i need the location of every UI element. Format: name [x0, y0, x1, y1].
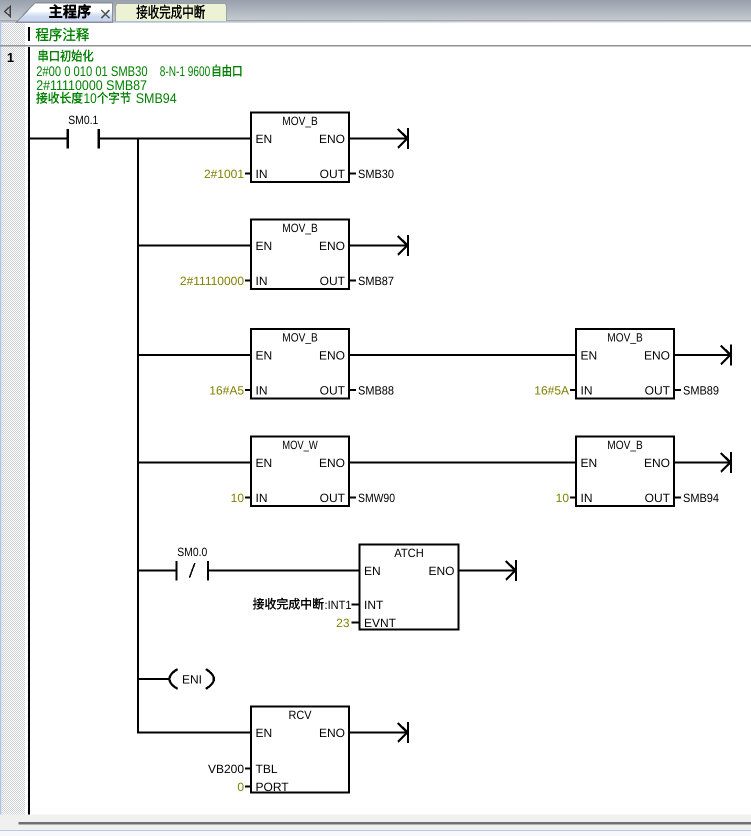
rung 4 middle wire	[349, 462, 576, 464]
svg-text:10: 10	[231, 491, 245, 505]
svg-text:SMB30: SMB30	[358, 167, 394, 181]
svg-text:SM0.0: SM0.0	[177, 545, 207, 559]
left blue edge	[0, 23, 2, 831]
svg-text:EN: EN	[256, 726, 273, 740]
svg-text:ENO: ENO	[319, 456, 345, 470]
svg-text:ENO: ENO	[319, 349, 345, 363]
rung 1 wire segments	[29, 138, 68, 140]
svg-text:10: 10	[556, 491, 570, 505]
rung 5 arrow	[515, 560, 517, 581]
svg-text:INT: INT	[364, 598, 384, 612]
svg-text:OUT: OUT	[645, 491, 671, 505]
MOV_B box 3b	[576, 329, 674, 399]
tab scroll-left arrow	[5, 6, 11, 16]
svg-text:1: 1	[7, 50, 14, 65]
svg-text:ENO: ENO	[428, 564, 454, 578]
rung 3 wire	[138, 354, 251, 356]
svg-text:EN: EN	[256, 349, 273, 363]
separator line	[0, 45, 751, 47]
contact SM0.0 negated	[175, 561, 177, 581]
svg-text:EN: EN	[256, 132, 273, 146]
svg-text:EVNT: EVNT	[364, 616, 397, 630]
rung 5 ENO wire	[459, 570, 516, 572]
rung 7 ENO wire	[349, 732, 407, 734]
inactive tab label	[137, 5, 205, 19]
rung 4 ENO wire	[674, 462, 730, 464]
rung 2 arrow	[407, 235, 409, 256]
svg-text:SMB88: SMB88	[358, 384, 394, 398]
svg-text:23: 23	[336, 616, 350, 630]
program comment header 程序注释	[36, 28, 89, 42]
svg-text:EN: EN	[256, 239, 273, 253]
svg-text:IN: IN	[256, 491, 268, 505]
rung 7 wire	[138, 732, 251, 734]
svg-text:EN: EN	[256, 456, 273, 470]
svg-text:SMB89: SMB89	[683, 384, 719, 398]
svg-text:OUT: OUT	[645, 384, 671, 398]
box4b IN pin	[570, 497, 576, 499]
svg-text:MOV_W: MOV_W	[282, 438, 318, 452]
svg-text:IN: IN	[256, 274, 268, 288]
inactive tab 接收完成中断	[116, 3, 227, 21]
svg-text:MOV_B: MOV_B	[282, 221, 318, 235]
rung 3 middle wire	[349, 354, 576, 356]
svg-text:ENO: ENO	[319, 726, 345, 740]
box3a OUT pin	[349, 389, 356, 391]
MOV_B box 1	[251, 113, 349, 183]
tab bar background	[0, 0, 751, 21]
svg-text:8-N-1 9600: 8-N-1 9600	[160, 63, 211, 79]
svg-text:MOV_B: MOV_B	[607, 438, 643, 452]
bottom blue line	[0, 830, 751, 832]
rung 2 wire	[138, 245, 251, 247]
box4b OUT pin	[674, 497, 681, 499]
rung 3 ENO wire	[674, 354, 730, 356]
box3b OUT pin	[674, 389, 681, 391]
svg-text:SMB94: SMB94	[683, 491, 719, 505]
ATCH EVNT pin	[352, 622, 360, 624]
ATCH INT label CJK	[253, 598, 324, 610]
RCV PORT pin	[245, 786, 251, 788]
svg-text:PORT: PORT	[256, 780, 290, 794]
svg-text:ENO: ENO	[319, 239, 345, 253]
svg-text:VB200: VB200	[208, 762, 244, 776]
svg-text:SMW90: SMW90	[358, 491, 395, 505]
rung 5 wire to contact	[138, 570, 177, 572]
svg-text:OUT: OUT	[320, 167, 346, 181]
RCV TBL pin	[245, 768, 251, 770]
rung 4 arrow	[730, 452, 732, 473]
branch vertical wire	[137, 138, 139, 734]
MOV_W box 4a	[251, 437, 349, 507]
svg-text:ENO: ENO	[319, 132, 345, 146]
svg-text:EN: EN	[581, 456, 598, 470]
box3a IN pin	[245, 389, 251, 391]
MOV_B box 2	[251, 220, 349, 290]
comment 自由口	[213, 65, 241, 77]
svg-text:IN: IN	[256, 167, 268, 181]
ATCH box U5	[360, 545, 459, 630]
svg-text:16#5A: 16#5A	[534, 384, 569, 398]
active tab 主程序	[16, 3, 112, 23]
rung 7 arrow	[407, 722, 409, 743]
svg-text:IN: IN	[581, 491, 593, 505]
comment marker bar	[28, 27, 30, 41]
svg-text:TBL: TBL	[256, 762, 278, 776]
svg-text:SMB87: SMB87	[358, 274, 394, 288]
splitter dark line	[19, 822, 751, 825]
left power rail	[28, 47, 30, 815]
svg-text:16#A5: 16#A5	[209, 384, 244, 398]
box4a OUT pin	[349, 497, 356, 499]
box2 OUT pin	[349, 280, 356, 282]
tab close x	[101, 10, 109, 18]
svg-text:ATCH: ATCH	[394, 546, 424, 560]
RCV box	[251, 707, 349, 793]
MOV_B box 3a	[251, 329, 349, 399]
svg-text:OUT: OUT	[320, 491, 346, 505]
svg-text:EN: EN	[364, 564, 381, 578]
svg-text:ENO: ENO	[644, 349, 670, 363]
svg-text:EN: EN	[581, 349, 598, 363]
svg-text:MOV_B: MOV_B	[282, 331, 318, 345]
box3b IN pin	[570, 389, 576, 391]
rung 3 arrow	[730, 344, 732, 365]
svg-text:RCV: RCV	[289, 708, 312, 722]
MOV_B box 4b	[576, 437, 674, 507]
svg-text:MOV_B: MOV_B	[282, 114, 318, 128]
comment 接收长度	[36, 92, 82, 104]
contact SM0.1	[66, 129, 68, 149]
rung 1 ENO wire	[349, 138, 407, 140]
box1 OUT pin	[349, 173, 356, 175]
rung 1 continuation arrow	[407, 128, 409, 149]
svg-text:10: 10	[84, 90, 97, 106]
rung 6 wire	[138, 678, 171, 680]
svg-text:SM0.1: SM0.1	[68, 113, 98, 127]
svg-text:OUT: OUT	[320, 384, 346, 398]
active tab label	[49, 4, 90, 18]
svg-text:SMB94: SMB94	[136, 90, 177, 106]
box1 IN pin	[245, 173, 251, 175]
svg-text:0: 0	[237, 780, 244, 794]
rung 4 wire	[138, 462, 251, 464]
svg-text::INT1: :INT1	[325, 598, 352, 612]
svg-text:MOV_B: MOV_B	[607, 331, 643, 345]
svg-text:ENI: ENI	[182, 672, 202, 686]
coil ENI	[169, 669, 177, 689]
box2 IN pin	[245, 280, 251, 282]
rung 2 ENO wire	[349, 245, 407, 247]
svg-text:2#11110000: 2#11110000	[180, 274, 244, 288]
bottom splitter area	[0, 815, 751, 831]
comment 串口初始化	[39, 50, 94, 62]
svg-text:ENO: ENO	[644, 456, 670, 470]
comment 个字节	[97, 92, 130, 104]
ATCH INT pin	[352, 604, 360, 606]
box4a IN pin	[245, 497, 251, 499]
svg-text:IN: IN	[256, 384, 268, 398]
svg-text:IN: IN	[581, 384, 593, 398]
svg-text:2#1001: 2#1001	[204, 167, 244, 181]
svg-text:OUT: OUT	[320, 274, 346, 288]
gutter dither	[2, 24, 25, 815]
